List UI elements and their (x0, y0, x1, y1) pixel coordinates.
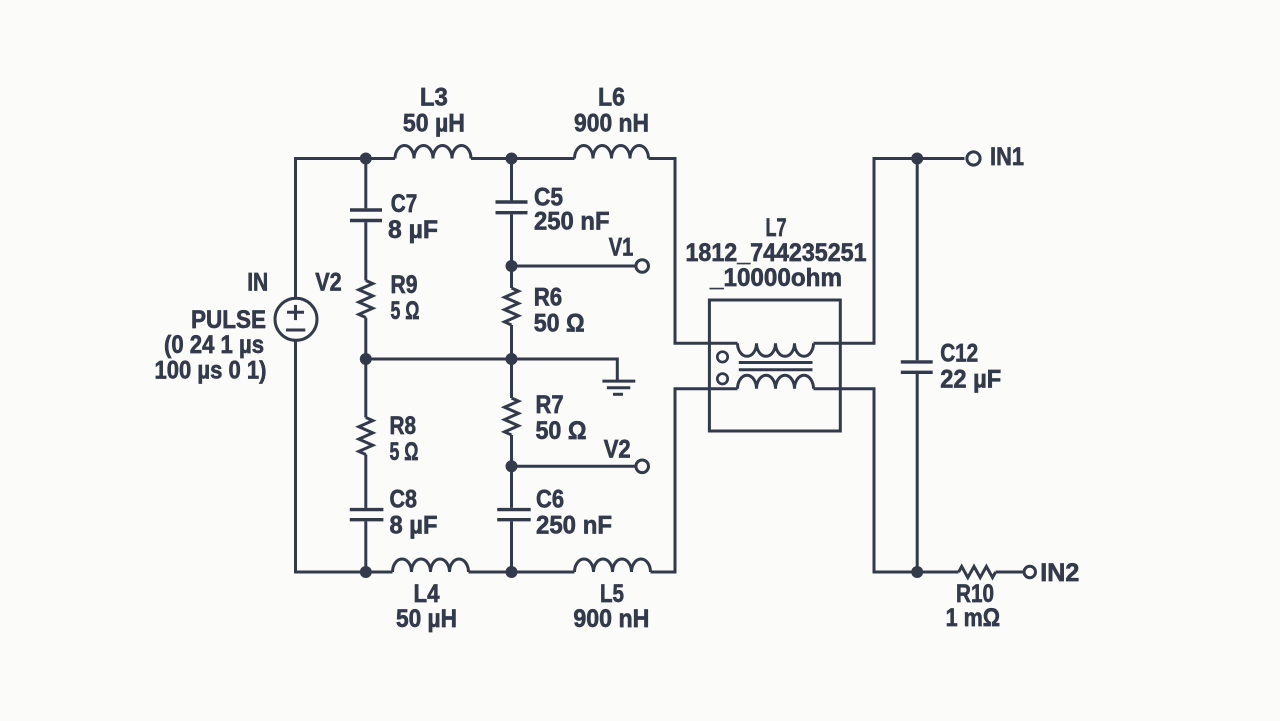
capacitor C5 (496, 184, 610, 236)
svg-text:(0 24 1 µs: (0 24 1 µs (164, 331, 264, 359)
svg-text:50 Ω: 50 Ω (534, 310, 585, 338)
wire R6 to mid junction to R7 (510, 325, 513, 398)
node bottom C6 rail (506, 566, 518, 578)
svg-text:IN2: IN2 (1040, 559, 1079, 587)
wire R7 to V2 junction to C6 (510, 435, 513, 508)
svg-text:V1: V1 (609, 234, 634, 262)
svg-text:5 Ω: 5 Ω (390, 438, 419, 466)
svg-text:L4: L4 (414, 580, 440, 608)
svg-text:50 µH: 50 µH (403, 110, 465, 138)
svg-text:8 µF: 8 µF (388, 216, 438, 244)
wire bottom between L4 and L5 (469, 571, 575, 574)
svg-text:5 Ω: 5 Ω (391, 297, 420, 325)
svg-text:_10000ohm: _10000ohm (709, 264, 842, 292)
svg-text:100 µs 0 1): 100 µs 0 1) (155, 357, 267, 385)
svg-text:R8: R8 (390, 412, 417, 440)
wire C8 to bottom wire (364, 521, 367, 572)
resistor R8 (359, 412, 419, 466)
svg-text:250 nF: 250 nF (536, 512, 612, 540)
ground (602, 381, 635, 394)
svg-text:8 µF: 8 µF (390, 512, 438, 540)
voltage source V2 (pulse) (155, 269, 342, 385)
svg-text:R9: R9 (391, 271, 418, 299)
wire C12 rail upper (916, 159, 919, 361)
terminal IN2 (1024, 559, 1079, 587)
node IN2 branch (911, 566, 923, 578)
wire C12 rail lower (916, 374, 919, 572)
svg-text:1812_744235251: 1812_744235251 (686, 239, 867, 267)
wire C5 to V1 junction to R6 (510, 214, 513, 288)
wire C6 to bottom wire (510, 521, 513, 572)
svg-text:250 nF: 250 nF (534, 208, 610, 236)
svg-text:C7: C7 (391, 190, 418, 218)
svg-text:C6: C6 (536, 486, 564, 514)
capacitor C12 (901, 340, 1001, 394)
inductor L5 (573, 559, 650, 633)
capacitor C8 (350, 486, 438, 540)
svg-text:50 Ω: 50 Ω (536, 417, 587, 445)
probe V1 (512, 234, 649, 273)
resistor R9 (359, 271, 420, 325)
svg-text:R6: R6 (534, 284, 563, 312)
node IN1 branch (911, 153, 923, 165)
svg-text:V2: V2 (604, 436, 631, 464)
svg-text:L5: L5 (600, 580, 624, 608)
wire junction to R10 (917, 571, 958, 574)
node top C5 rail (506, 153, 518, 165)
svg-text:C8: C8 (390, 486, 418, 514)
wire from transformer top winding up to IN1 (814, 159, 965, 344)
wire R9 to mid junction to R8 (364, 318, 367, 418)
wire from transformer bottom winding down to IN2 junction (814, 389, 918, 572)
capacitor C7 (350, 190, 438, 244)
svg-text:L6: L6 (598, 84, 625, 112)
resistor R10 (946, 567, 1024, 633)
svg-text:900 nH: 900 nH (573, 605, 649, 633)
wire from L6 down to transformer top winding (649, 159, 738, 344)
inductor L6 (574, 84, 649, 159)
svg-text:V2: V2 (315, 269, 342, 297)
inductor L4 (393, 559, 469, 633)
node top C7 rail (360, 153, 372, 165)
node mid left (360, 353, 372, 365)
transformer L7 (686, 214, 867, 431)
wire from L5 up to transformer bottom winding (651, 389, 738, 572)
wire top-left corner from source rail to L3 (296, 159, 396, 298)
node bottom C8 rail (360, 566, 372, 578)
wire left rail below source down to bottom wire (296, 341, 393, 572)
svg-text:900 nH: 900 nH (574, 110, 649, 138)
capacitor C6 (497, 486, 612, 540)
wire rail A from top wire to C7 (364, 159, 367, 209)
node mid right (506, 353, 518, 365)
wire R8 to C8 (364, 455, 367, 508)
svg-text:L7: L7 (766, 214, 787, 242)
resistor R7 (505, 391, 587, 445)
wire rail B from top wire to C5 (510, 159, 513, 201)
svg-text:22 µF: 22 µF (940, 366, 1001, 394)
svg-text:50 µH: 50 µH (396, 605, 457, 633)
svg-text:IN: IN (247, 269, 268, 297)
svg-text:1 mΩ: 1 mΩ (946, 604, 1001, 632)
probe V2 (512, 436, 649, 473)
svg-text:PULSE: PULSE (191, 306, 266, 334)
terminal IN1 (967, 143, 1024, 171)
wire C7 to R9 (364, 222, 367, 280)
resistor R6 (505, 284, 585, 338)
node V2 tap (506, 460, 518, 472)
node V1 tap (506, 260, 518, 272)
wire top between L3 and L6 (471, 157, 575, 160)
wire mid rail to ground (366, 359, 618, 381)
svg-text:R7: R7 (536, 391, 564, 419)
svg-text:IN1: IN1 (990, 143, 1024, 171)
svg-text:C12: C12 (940, 340, 978, 368)
svg-text:L3: L3 (420, 84, 448, 112)
inductor L3 (395, 84, 471, 159)
